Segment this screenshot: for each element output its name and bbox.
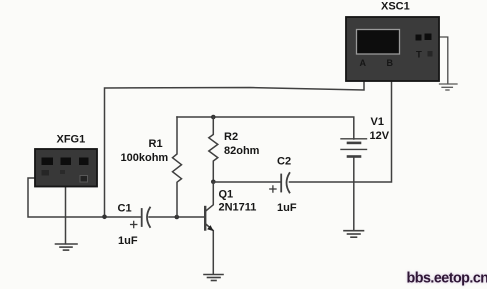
svg-text:R1: R1	[149, 138, 163, 150]
ground (XFG1)	[56, 244, 78, 250]
wire battery bottom to ground	[353, 157, 355, 230]
plus sign C1	[131, 221, 137, 227]
svg-text:82ohm: 82ohm	[224, 145, 260, 157]
node D junction dot (collector / C2)	[211, 180, 216, 185]
svg-text:bbs.eetop.cn: bbs.eetop.cn	[407, 270, 487, 286]
svg-text:2N1711: 2N1711	[219, 202, 257, 214]
function generator XFG1	[35, 149, 97, 187]
transistor Q1 base bar	[204, 207, 206, 230]
svg-text:XSC1: XSC1	[381, 1, 410, 13]
svg-text:100kohm: 100kohm	[121, 152, 169, 164]
svg-text:C1: C1	[118, 203, 132, 215]
svg-text:12V: 12V	[370, 130, 390, 142]
oscilloscope XSC1	[346, 17, 439, 81]
wire XFG1 common to ground	[65, 186, 67, 244]
wire scope ground terminal	[439, 37, 448, 84]
ground (scope)	[440, 84, 458, 90]
ground (Q1 emitter)	[204, 275, 223, 281]
svg-text:1uF: 1uF	[118, 235, 138, 247]
svg-text:XFG1: XFG1	[57, 134, 86, 146]
wire XFG1 plus terminal to node A	[28, 178, 141, 217]
watermark bbs.eetop.cn	[407, 270, 487, 286]
svg-text:B: B	[387, 58, 394, 68]
ground (battery)	[344, 231, 364, 238]
svg-text:T: T	[416, 50, 422, 61]
wire scope A to node A (top horizontal + left vertical)	[105, 81, 365, 217]
transistor Q1 emitter lead	[205, 224, 213, 275]
svg-text:A: A	[360, 58, 367, 68]
svg-text:C2: C2	[277, 156, 291, 168]
node B junction dot (R1 bottom / base wire)	[175, 215, 180, 220]
battery V1	[341, 139, 367, 157]
resistor R2	[209, 117, 218, 182]
svg-text:R2: R2	[224, 131, 238, 143]
wire C2 to scope B	[290, 81, 392, 182]
node A junction dot	[102, 215, 107, 220]
resistor R1	[173, 117, 182, 217]
capacitor C2	[281, 173, 289, 193]
transistor Q1 emitter arrowhead	[207, 225, 214, 231]
plus sign C2	[270, 186, 276, 192]
wire C1 to Q1 base	[149, 216, 205, 218]
svg-text:Q1: Q1	[219, 189, 234, 201]
capacitor C1	[142, 208, 150, 228]
node C junction dot (R2 top)	[211, 115, 216, 120]
wire top rail R1 to battery	[177, 117, 354, 139]
svg-text:V1: V1	[371, 116, 384, 128]
transistor Q1 collector lead	[205, 182, 213, 212]
svg-text:1uF: 1uF	[277, 202, 297, 214]
wire node D to C2	[213, 181, 280, 183]
